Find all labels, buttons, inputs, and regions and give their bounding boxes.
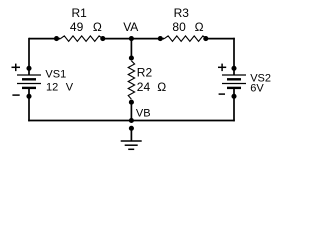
wire: VA down to R2 top (130, 39, 132, 58)
wire: left rail lower (VS1 - down to bottom-left corner) (28, 96, 30, 121)
wire: top rail right segment (R3 to top-right corner) (207, 38, 235, 40)
wire: right rail lower (VS2 - down to bottom-right corner) (233, 96, 235, 121)
VS1 plus sign (12, 64, 21, 72)
junction dot: R3 left terminal (158, 36, 163, 41)
resistor R3 zigzag body (164, 36, 207, 42)
junction dot: VS1 positive terminal (26, 66, 31, 71)
VS2 stem from last plate to - dot (233, 88, 235, 96)
junction dot: ground connection below VB (129, 126, 134, 131)
svg-text:VB: VB (136, 108, 151, 120)
svg-text:VA: VA (123, 20, 138, 34)
ground symbol (121, 141, 142, 149)
VS2 plus sign (218, 64, 226, 72)
resistor R1 zigzag body (60, 36, 103, 42)
node VA junction dot (129, 36, 134, 41)
wire: top rail middle segment (R1 to R3 through node VA) (103, 38, 164, 40)
VS1 stem from last plate to - dot (28, 88, 30, 96)
VS1 minus sign (12, 94, 19, 96)
svg-text:R3: R3 (174, 6, 190, 20)
wire: bottom rail (28, 120, 235, 122)
wire: right rail upper (top-right corner down to VS2 +) (233, 38, 235, 69)
VS2 short thick plate 2 (negative) (227, 87, 241, 89)
VS2 long plate 1 (positive) (222, 74, 246, 76)
VS2 minus sign (219, 93, 225, 95)
wire: left rail upper (top-left corner down to VS1 +) (28, 38, 30, 69)
svg-text:R2: R2 (137, 65, 153, 79)
VS1 long plate 1 (positive) (17, 74, 41, 76)
wire: R2 bottom down to node VB (130, 102, 132, 120)
junction dot: R2 bottom terminal (129, 100, 134, 105)
wire: ground stem (130, 128, 132, 141)
junction dot: R3 right terminal (203, 36, 208, 41)
VS1 short thick plate 2 (negative) (22, 87, 36, 89)
wire: top rail left segment (left corner to R1) (29, 38, 60, 40)
VS2 stem from + dot to first plate (233, 68, 235, 75)
junction dot: VS2 negative terminal (231, 94, 236, 99)
junction dot: R1 left terminal (54, 36, 59, 41)
svg-text:VS1: VS1 (45, 68, 66, 80)
node VB junction dot (129, 118, 134, 123)
junction dot: R1 right terminal (100, 36, 105, 41)
battery VS2 (222, 68, 246, 96)
resistor R2 zigzag body (vertical) (128, 61, 134, 99)
junction dot: VS1 negative terminal (26, 94, 31, 99)
junction dot: VS2 positive terminal (231, 66, 236, 71)
VS1 stem from + dot to first plate (28, 68, 30, 75)
svg-text:6V: 6V (250, 82, 264, 94)
junction dot: R2 top terminal (129, 55, 134, 60)
VS1 long plate 2 (positive) (17, 83, 41, 85)
VS2 long plate 2 (positive) (222, 83, 246, 85)
battery VS1 (17, 68, 41, 96)
svg-text:R1: R1 (72, 6, 88, 20)
VS1 short thick plate 1 (negative) (22, 78, 36, 80)
VS2 short thick plate 1 (negative) (227, 78, 241, 80)
